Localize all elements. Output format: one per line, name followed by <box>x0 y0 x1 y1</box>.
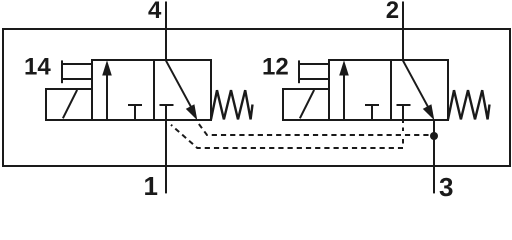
svg-text:1: 1 <box>144 171 158 197</box>
port 1 stub below V2 <box>402 120 404 124</box>
port 3 line <box>433 120 435 193</box>
port 1 line <box>165 120 167 194</box>
valve V2 (right, ports 2/3/12) <box>283 2 490 121</box>
svg-text:2: 2 <box>386 0 399 24</box>
junction node on port 3 <box>430 132 438 140</box>
pilot line 14 (dashed, V1 exhaust to port3 junction) <box>197 121 435 135</box>
svg-text:4: 4 <box>148 0 162 24</box>
enclosure border <box>3 29 510 166</box>
pilot line 12 riser dash <box>402 128 404 132</box>
svg-text:14: 14 <box>24 53 51 80</box>
pilot line 12 riser dash <box>402 139 404 144</box>
svg-text:12: 12 <box>262 53 289 80</box>
pilot line 12 (dashed, port1 to V2 pilot) <box>171 125 403 148</box>
valve V1 (left, ports 4/1/14) <box>46 2 253 121</box>
svg-text:3: 3 <box>439 172 453 197</box>
